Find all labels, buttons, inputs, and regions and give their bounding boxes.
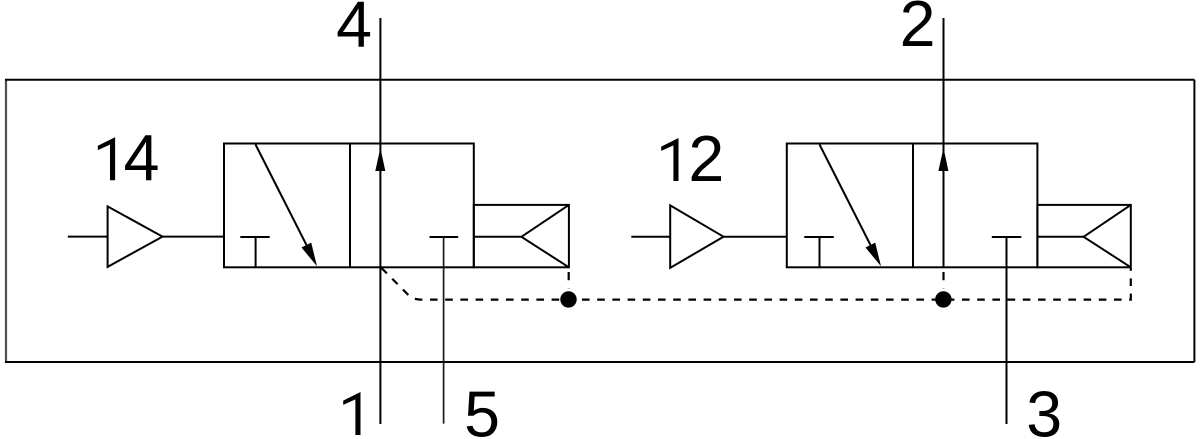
svg-text:4: 4 — [336, 0, 372, 61]
pilot label 12 — [661, 138, 678, 181]
V1 pilot line to valve body — [163, 236, 225, 238]
V1 air spring return box — [474, 205, 569, 267]
V1 spring pilot triangle — [474, 205, 569, 267]
V1 left square blocked port T — [240, 237, 269, 267]
svg-text:2: 2 — [688, 123, 724, 195]
valve V1 body (two-position 3/2 valve, left) — [224, 144, 474, 268]
port line 4 (vertical line through valve V1, ports 4 top / 1 bottom) — [379, 18, 381, 424]
dashed branch to V1 spring pilot — [568, 268, 570, 289]
junction dot at V1 spring branch — [560, 291, 576, 307]
valve V2 body (two-position 3/2 valve, right) — [787, 144, 1038, 268]
svg-text:2: 2 — [900, 0, 936, 60]
V2 pilot triangle 12 — [670, 205, 723, 268]
svg-text:4: 4 — [124, 122, 160, 194]
V1 pilot line 14 (left lead) — [68, 236, 108, 238]
V1 left square flow arrow (diagonal) — [256, 145, 309, 249]
V2 left square flow arrow (diagonal) — [820, 145, 873, 249]
V1 right square blocked port T (port 5) — [430, 236, 459, 238]
V2 air spring return box — [1037, 205, 1130, 267]
svg-text:3: 3 — [1026, 379, 1062, 439]
port line 2 (vertical line into valve V2, port 2 top) — [943, 18, 945, 267]
V2 spring pilot triangle — [1037, 205, 1130, 267]
V2 left square blocked port T — [804, 237, 834, 267]
V1 pilot triangle 14 — [108, 206, 163, 267]
V2 pilot line 12 (left lead) — [631, 236, 670, 238]
port label 1 — [343, 392, 360, 435]
enclosure border (manifold outline) — [5, 80, 7, 362]
svg-text:5: 5 — [464, 379, 500, 439]
dashed branch below V2 (port feed) — [942, 268, 944, 289]
pilot label 14 — [98, 137, 115, 180]
V2 pilot line to valve body — [724, 236, 787, 238]
port line 5 (stem through box bottom and border) — [443, 237, 445, 424]
V2 right square blocked port T (port 3) — [992, 236, 1022, 238]
V2 right square up-arrow head (flow to port 2) — [938, 148, 948, 171]
V1 right square up-arrow head (flow 1 to 4) — [375, 148, 385, 171]
junction dot at V2 branch — [935, 291, 951, 307]
port line 3 (stem through box bottom and border) — [1006, 237, 1008, 424]
dashed pilot supply rail (internal pilot air) — [382, 268, 1131, 300]
